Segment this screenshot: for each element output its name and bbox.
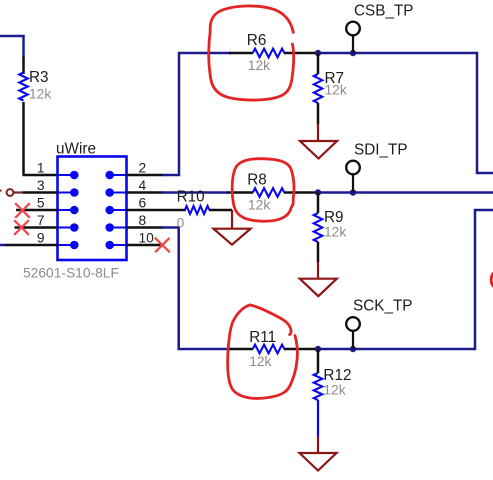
connector pin 6: [110, 209, 127, 211]
ground below R12: [317, 437, 319, 454]
node junction SCK_TP: [350, 346, 356, 352]
tiny clipped red mark at left edge: [0, 190, 2, 191]
red annotation loop around R6: [209, 6, 294, 100]
resistor R9: [317, 193, 320, 214]
svg-text:12k: 12k: [323, 383, 345, 398]
testpoint SDI_TP: [346, 161, 360, 175]
node junction R6/R7: [315, 50, 321, 56]
wire pin 5: [16, 209, 58, 212]
svg-text:9: 9: [37, 230, 45, 245]
connector J1 uWire 52601-S10-8LF body: [58, 157, 127, 261]
wire pin 7: [15, 226, 58, 229]
wire CSB net: up and across to R6: [162, 53, 231, 175]
wire net to R3 top from left edge: [0, 36, 24, 57]
svg-text:R10: R10: [177, 189, 205, 206]
ground below R9: [317, 262, 319, 280]
resistor R3: [22, 56, 25, 74]
connector pin 1: [58, 174, 75, 176]
red X on pin 5: [15, 203, 30, 218]
resistor R11: [227, 348, 253, 351]
red annotation loop around R11: [250, 305, 291, 335]
resistor R7: [317, 53, 320, 74]
wire SDI across to right edge: [318, 191, 493, 194]
svg-text:12k: 12k: [249, 354, 271, 369]
wire SCK to right edge: [318, 210, 493, 349]
red X on pin 10: [155, 238, 170, 253]
wire pin 6 to R10: [127, 209, 187, 212]
no-ERC marker circle on pin 3: [7, 189, 14, 196]
node junction R11/R12: [315, 346, 321, 352]
svg-text:uWire: uWire: [56, 141, 96, 158]
wire pin 10 stub: [127, 244, 163, 247]
svg-text:2: 2: [139, 160, 147, 175]
node junction R8/R9: [315, 189, 321, 195]
svg-text:3: 3: [37, 178, 45, 193]
connector pin 8: [110, 227, 127, 229]
svg-text:52601-S10-8LF: 52601-S10-8LF: [23, 266, 119, 281]
svg-text:8: 8: [139, 213, 147, 228]
wire pin 3: [13, 191, 22, 193]
svg-text:R9: R9: [324, 209, 344, 226]
svg-text:6: 6: [139, 195, 147, 210]
resistor R12: [317, 349, 320, 373]
svg-text:5: 5: [37, 195, 45, 210]
connector pin 5: [58, 209, 75, 211]
svg-text:0: 0: [177, 216, 185, 231]
svg-text:R6: R6: [247, 32, 267, 49]
resistor R8: [227, 191, 253, 194]
svg-text:1: 1: [37, 160, 45, 175]
wire CSB across top: [318, 53, 493, 173]
connector pin 7: [58, 227, 75, 229]
svg-text:4: 4: [139, 178, 147, 193]
node junction SDI_TP: [350, 189, 356, 195]
resistor R6: [229, 52, 253, 55]
testpoint SCK_TP: [346, 317, 360, 331]
wire SCK net: down and across to R11: [162, 228, 231, 350]
red annotation loop around R8: [232, 159, 294, 222]
ground below R10: [231, 210, 233, 229]
connector pin 9: [58, 244, 75, 246]
node junction CSB_TP: [350, 50, 356, 56]
svg-text:R8: R8: [247, 172, 267, 189]
svg-text:7: 7: [37, 213, 45, 228]
svg-text:R12: R12: [323, 367, 351, 384]
red X on pin 7: [14, 220, 29, 235]
svg-text:SDI_TP: SDI_TP: [354, 142, 408, 159]
svg-text:12k: 12k: [325, 83, 347, 98]
svg-text:12k: 12k: [29, 87, 51, 102]
connector pin 2: [110, 174, 127, 176]
connector pin 4: [110, 192, 127, 194]
wire pin 2: [127, 174, 164, 177]
svg-text:R3: R3: [29, 69, 49, 86]
ground below R7: [317, 124, 319, 142]
connector pin 3: [58, 192, 75, 194]
wire pin 8 (SCK net): [127, 226, 164, 229]
svg-text:12k: 12k: [248, 198, 270, 213]
svg-text:12k: 12k: [248, 58, 270, 73]
wire pin 4 (SDI net): [127, 191, 164, 194]
wire pin1 to connector: [23, 174, 58, 177]
svg-text:10: 10: [139, 230, 155, 245]
testpoint CSB_TP: [346, 22, 360, 36]
svg-text:CSB_TP: CSB_TP: [354, 3, 414, 20]
svg-text:12k: 12k: [324, 225, 346, 240]
wire pin 9: [0, 244, 7, 247]
svg-text:R11: R11: [249, 329, 276, 346]
connector pin 10: [110, 244, 127, 246]
red annotation mark clipped at right edge: [491, 273, 493, 288]
resistor R10: [185, 206, 210, 214]
svg-text:SCK_TP: SCK_TP: [353, 298, 413, 315]
